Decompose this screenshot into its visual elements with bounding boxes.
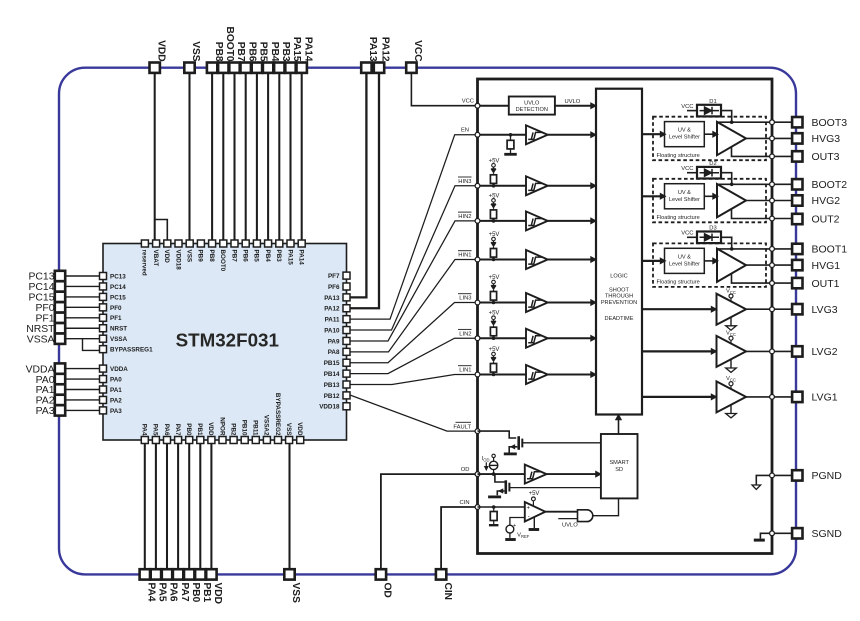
terminal OUT1 (right) [792,278,802,288]
MCU left pin VSSA [100,335,107,342]
MCU top pin VSS [186,240,193,247]
wire PA14 (top) to MCU pin PA14 [301,73,303,240]
svg-text:EN: EN [461,128,469,134]
MCU bottom pin BYPASSREG2 [275,437,282,444]
svg-text:VCC: VCC [412,40,423,62]
terminal SGND (right) [792,528,802,538]
wire PB8 (top) to MCU pin PB8 [211,73,213,240]
wire HVG1 output [746,264,792,266]
CIN pull-down resistor [492,505,496,509]
svg-text:PF1: PF1 [35,314,54,325]
svg-text:NRST: NRST [110,326,127,333]
terminal HVG3 (right) [792,133,802,143]
terminal PGND (right) [792,470,802,480]
svg-text:VBAT: VBAT [152,250,159,267]
svg-text:PA14: PA14 [298,250,305,266]
svg-text:PA5: PA5 [152,424,159,436]
terminal BOOT1 (right) [792,244,802,254]
wire PA15 (top) to MCU pin PA15 [289,73,291,240]
svg-text:PB14: PB14 [324,371,340,378]
node OD on driver boundary [475,472,480,477]
wire BOOT1 output [717,248,792,250]
svg-text:PB4: PB4 [264,250,271,263]
node FAULT on driver boundary [475,429,480,434]
wire PA2 (left) to MCU pin PA2 [66,399,100,401]
svg-text:NPOR: NPOR [218,417,225,436]
MCU bottom pin NPOR [219,437,226,444]
svg-text:VDD18: VDD18 [174,250,181,271]
svg-text:THROUGH: THROUGH [605,294,633,300]
svg-text:PB10: PB10 [241,420,248,436]
svg-text:VDD: VDD [212,583,223,605]
MCU top pin PB8 [209,240,216,247]
svg-text:PB3: PB3 [275,250,282,263]
high-side gate buffer (stage 1) [717,249,746,282]
svg-text:UV &: UV & [678,190,691,196]
wire LVG1 output [746,396,792,398]
svg-text:PA5: PA5 [157,583,168,602]
wire LIN3 buffer to logic block [548,302,596,304]
MCU left pin PC15 [100,293,107,300]
wire LIN2 buffer to logic block [548,337,596,339]
MCU right pin VDD18 [343,403,350,410]
svg-text:SHOOT: SHOOT [609,288,629,294]
terminal PB7 (top) [229,63,239,73]
wire BOOT0 (top) to MCU pin BOOT0 [222,73,224,240]
MCU bottom pin PA5 [152,437,159,444]
wire OUT2 output [732,209,792,219]
svg-text:VSS: VSS [290,583,301,604]
wire PGND to boundary node [772,474,792,476]
svg-text:PA0: PA0 [110,376,122,383]
node LIN2 on driver boundary [478,337,527,339]
svg-text:PA8: PA8 [328,349,340,356]
MCU left pin VDDA [100,365,107,372]
wire OD buffer to SMART SD [547,473,601,475]
wire PB5 (top) to MCU pin PB5 [256,73,258,240]
svg-text:PF0: PF0 [110,305,122,312]
svg-text:UVLO: UVLO [524,101,540,107]
terminal PA3 (left) [55,405,65,415]
MCU right pin PA13 [343,294,350,301]
svg-text:PF6: PF6 [328,284,340,291]
wire MCU PA9 to driver HIN2 input [350,221,478,341]
MCU bottom pin VDD [297,437,304,444]
svg-text:HIN3: HIN3 [458,179,471,185]
svg-text:PC13: PC13 [29,272,55,283]
MCU left pin BYPASSREG1 [100,346,107,353]
wire PF0 (left) to MCU pin PF0 [66,306,100,308]
AND gate U3 [578,510,593,522]
MCU top pin PB6 [242,240,249,247]
terminal OD (bottom) [376,569,386,579]
svg-text:PA14: PA14 [302,37,313,62]
svg-text:BYPASSREG1: BYPASSREG1 [110,347,153,354]
schmitt trigger buffer (OD) [525,465,547,484]
wire MCU PB12 to driver FAULT input [350,395,478,431]
svg-text:LVG1: LVG1 [812,392,838,404]
terminal LVG3 (right) [792,304,802,314]
svg-text:PC15: PC15 [110,294,126,301]
svg-text:VSSA: VSSA [110,336,128,343]
terminal VDD (bottom) [206,569,216,579]
svg-text:PA1: PA1 [36,385,55,396]
wire PB3 (top) to MCU pin PB3 [278,73,280,240]
MCU U1 STM32F031 body [103,244,347,441]
high-side gate buffer (stage 2) [717,184,746,217]
node VCC on driver boundary [478,105,509,107]
svg-text:HVG3: HVG3 [812,133,841,145]
svg-text:VDD: VDD [163,250,170,264]
terminal PA13 (top) [361,63,371,73]
wire MCU PB13 to driver LIN1 input [350,375,478,385]
wire logic to UV & level shifter (stage 3) [642,133,665,135]
svg-text:VCC: VCC [681,104,693,110]
svg-text:PA10: PA10 [324,327,340,334]
MCU right pin PB15 [343,359,350,366]
svg-text:PA9: PA9 [328,338,340,345]
UV & Level Shifter block (stage 2) [665,184,705,209]
svg-text:VCC: VCC [681,166,693,172]
schmitt trigger buffer (HIN1) [526,250,548,269]
wire level shifter to gate buffer (stage 3) [704,133,717,135]
terminal VSS (bottom) [284,569,294,579]
terminal LVG2 (right) [792,346,802,356]
svg-text:PB12: PB12 [324,393,340,400]
terminal PB0 (bottom) [184,569,194,579]
terminal VDDA (left) [55,363,65,373]
MCU left pin PC13 [100,273,107,280]
wire SGND to boundary node [772,532,792,534]
svg-text:VSSA2: VSSA2 [263,415,270,436]
svg-text:VDDA: VDDA [110,366,128,373]
wire EN buffer to logic block [548,134,596,136]
ground (LVG2 buffer) [730,360,732,368]
svg-text:UV &: UV & [678,254,691,260]
svg-text:PB9: PB9 [197,250,204,263]
svg-text:PA13: PA13 [324,295,340,302]
MCU right pin PF6 [343,283,350,290]
svg-text:PB5: PB5 [258,42,269,62]
MCU right pin PA10 [343,327,350,334]
MCU top pin PB9 [197,240,204,247]
svg-text:IOD: IOD [482,456,490,463]
svg-text:HVG1: HVG1 [812,260,841,272]
terminal VCC (top) [406,63,416,73]
wire LVG2 output [746,350,792,352]
wire HVG3 output [746,137,792,139]
svg-text:NRST: NRST [26,324,55,335]
wire PA12 (top) to MCU pin PA12 [350,73,379,308]
node CIN on driver boundary [475,505,480,510]
svg-text:PA3: PA3 [110,408,122,415]
terminal PC14 (left) [55,281,65,291]
floating structure dashed box (stage 1) [653,243,766,287]
schmitt trigger buffer (LIN1) [526,365,548,384]
terminal PA6 (bottom) [162,569,172,579]
svg-text:PB4: PB4 [269,42,280,62]
svg-text:+5V: +5V [529,491,540,497]
svg-text:reserved: reserved [141,250,148,276]
wire AND gate to SMART SD [593,498,619,515]
svg-text:PA3: PA3 [36,406,55,417]
wire PB6 (top) to MCU pin PB6 [245,73,247,240]
svg-text:PA6: PA6 [168,583,179,602]
wire PC14 (left) to MCU pin PC14 [66,285,100,287]
svg-text:PGND: PGND [812,470,843,482]
svg-text:PB15: PB15 [324,360,340,367]
wire MCU pin VSS to VSS (bottom) [288,444,290,570]
svg-text:LVG2: LVG2 [812,346,838,358]
svg-text:FAULT: FAULT [453,424,471,430]
terminal PC13 (left) [55,271,65,281]
ground (LVG1 buffer) [730,405,732,413]
terminal BOOT3 (right) [792,117,802,127]
svg-text:VDD: VDD [207,422,214,436]
svg-text:LVG3: LVG3 [812,304,838,316]
svg-text:VSS: VSS [285,423,292,436]
MCU right pin PB14 [343,370,350,377]
svg-text:PB1: PB1 [201,583,212,603]
MCU right pin PB13 [343,381,350,388]
wire MCU pin PB0 to PB0 (bottom) [188,444,190,570]
ground (SGND) [760,533,772,538]
svg-text:Level Shifter: Level Shifter [669,135,700,141]
svg-text:PA15: PA15 [286,250,293,266]
MCU left pin NRST [100,325,107,332]
svg-text:DETECTION: DETECTION [516,107,548,113]
terminal HVG2 (right) [792,195,802,205]
wire PA0 (left) to MCU pin PA0 [66,378,100,380]
svg-text:VDD: VDD [296,422,303,436]
MCU bottom pin VSSA2 [263,437,270,444]
svg-text:+: + [526,506,530,512]
wire SMART SD to logic block [618,415,620,435]
MCU top pin PB3 [276,240,283,247]
svg-text:PA12: PA12 [324,306,340,313]
svg-text:OD: OD [461,467,470,473]
SMART SD block [601,434,638,498]
svg-text:Floating structure: Floating structure [657,153,700,159]
svg-text:PA2: PA2 [110,397,122,404]
svg-text:VSS: VSS [190,41,201,62]
wire NRST (left) to MCU pin NRST [66,327,100,329]
ground (PGND) [756,475,772,485]
terminal OUT3 (right) [792,151,802,161]
svg-text:LOGIC: LOGIC [610,273,627,279]
MCU left pin PC14 [100,283,107,290]
svg-text:BOOT3: BOOT3 [812,117,848,129]
wire BOOT3 output [717,121,792,123]
low-side gate buffer LVG3 [717,294,747,325]
gate driver block boundary [478,79,773,554]
terminal PF0 (left) [55,302,65,312]
terminal PB1 (bottom) [195,569,205,579]
svg-text:PA6: PA6 [163,424,170,436]
svg-text:Floating structure: Floating structure [657,280,700,286]
svg-text:PB7: PB7 [235,42,246,62]
MCU left pin PA1 [100,386,107,393]
svg-text:OD: OD [382,583,393,598]
floating structure dashed box (stage 2) [653,179,766,223]
MCU top pin VDD [164,240,171,247]
MCU bottom pin PB0 [186,437,193,444]
svg-text:PC14: PC14 [29,282,55,293]
wire UVLO detection to logic block with UVLO net label [555,105,596,107]
wire VSS (top) to VSS pin [188,73,190,240]
node LIN1 on driver boundary [478,374,527,376]
svg-text:OUT2: OUT2 [812,214,840,226]
schmitt trigger buffer (HIN3) [526,176,548,195]
svg-text:PB2: PB2 [229,423,236,436]
svg-text:PB0: PB0 [190,583,201,603]
terminal PA14 (top) [297,63,307,73]
svg-text:PB6: PB6 [246,42,257,62]
svg-text:PC13: PC13 [110,273,126,280]
MCU top pin PA14 [298,240,305,247]
node EN on driver boundary [478,134,527,136]
MCU top pin PA15 [287,240,294,247]
MCU left pin PA2 [100,396,107,403]
MCU right pin PA8 [343,348,350,355]
svg-text:PA4: PA4 [146,583,157,602]
wire PA3 (left) to MCU pin PA3 [66,409,100,411]
MCU bottom pin PB11 [252,437,259,444]
svg-text:PB3: PB3 [280,42,291,62]
svg-text:-: - [528,514,530,520]
svg-text:VDD: VDD [155,40,166,62]
MCU right pin PA11 [343,316,350,323]
wire CIN (bottom) to driver CIN input [441,507,477,569]
schmitt trigger buffer (LIN2) [526,329,548,348]
svg-text:PA4: PA4 [141,424,148,436]
terminal BOOT0 (top) [218,63,228,73]
svg-text:VCC: VCC [462,99,474,105]
svg-text:PB11: PB11 [252,420,259,436]
svg-text:Floating structure: Floating structure [657,215,700,221]
wire MCU pin VDD to VDD (bottom) [210,444,212,570]
terminal CIN (bottom) [436,569,446,579]
wire PC15 (left) to MCU pin PC15 [66,296,100,298]
svg-text:PF1: PF1 [110,315,122,322]
terminal PB8 (top) [207,63,217,73]
wire MCU pin PA5 to PA5 (bottom) [155,444,157,570]
wire VSSA (left) to MCU pin VSSA [66,338,100,340]
wire LVG3 output [746,308,792,310]
wire BOOT2 output [717,183,792,185]
terminal PC15 (left) [55,292,65,302]
fault pull-down MOSFET Q1 [517,436,520,450]
wire MCU pin PA6 to PA6 (bottom) [166,444,168,570]
MCU left pin PA3 [100,407,107,414]
terminal BOOT2 (right) [792,179,802,189]
MCU left pin PF0 [100,304,107,311]
MCU bottom pin PB2 [230,437,237,444]
EN pull-down resistor [509,133,513,137]
LOGIC / shoot-through prevention / deadtime block [596,89,642,415]
MCU top pin reserved [141,240,148,247]
UVLO DETECTION block [509,97,555,115]
wire HVG2 output [746,200,792,202]
outer package boundary (blue rounded rectangle) [59,68,796,575]
terminal PA2 (left) [55,395,65,405]
wire HIN1 buffer to logic block [548,259,596,261]
wire OUT3 output [732,147,792,157]
MCU bottom pin VDD [208,437,215,444]
terminal HVG1 (right) [792,260,802,270]
terminal PA7 (bottom) [173,569,183,579]
wire PC13 (left) to MCU pin PC13 [66,275,100,277]
wire MCU pin PA7 to PA7 (bottom) [177,444,179,570]
MCU top pin PB7 [231,240,238,247]
wire comparator output to AND gate [545,511,578,513]
svg-text:PA11: PA11 [325,317,340,324]
schmitt trigger buffer (EN) [526,125,548,144]
high-side gate buffer (stage 3) [717,122,746,155]
svg-text:SD: SD [615,467,623,473]
OD pull-down MOSFET Q2 [495,474,505,482]
UV & Level Shifter block (stage 1) [665,248,705,273]
terminal PB6 (top) [241,63,251,73]
svg-text:DEADTIME: DEADTIME [605,316,634,322]
svg-text:LIN1: LIN1 [459,368,471,374]
MCU bottom pin PB10 [241,437,248,444]
svg-text:VSS: VSS [186,250,193,263]
node HIN3 on driver boundary [478,185,527,187]
MCU top pin PB5 [253,240,260,247]
svg-text:PB7: PB7 [230,250,237,263]
low-side gate buffer LVG1 [717,381,747,412]
ground (CIN resistor) [489,524,499,526]
wire LIN1 buffer to logic block [548,374,596,376]
svg-text:OUT1: OUT1 [812,278,840,290]
svg-text:LIN3: LIN3 [459,296,471,302]
wire VDD (top) to VBAT pin with branch to VDD pin [154,73,156,240]
terminal PA1 (left) [55,384,65,394]
wire level shifter to gate buffer (stage 2) [704,195,717,197]
svg-text:PF0: PF0 [35,303,54,314]
svg-text:SGND: SGND [812,528,843,540]
schmitt trigger buffer (HIN2) [526,211,548,230]
svg-text:VDDA: VDDA [26,364,55,375]
svg-text:PB13: PB13 [324,382,340,389]
terminal NRST (left) [55,323,65,333]
MCU top pin BOOT0 [220,240,227,247]
node HIN1 on driver boundary [478,259,527,261]
wire OD (bottom) to driver OD input [381,474,478,569]
svg-text:UV &: UV & [678,128,691,134]
svg-text:UVLO: UVLO [565,99,581,105]
terminal PB4 (top) [263,63,273,73]
svg-text:PREVENTION: PREVENTION [601,300,637,306]
svg-text:LIN2: LIN2 [459,331,471,337]
terminal VSSA (left) [55,334,65,344]
schmitt trigger buffer (LIN3) [526,293,548,312]
terminal PB3 (top) [274,63,284,73]
svg-text:BYPASSREG2: BYPASSREG2 [274,393,281,436]
ground (fault MOSFET source) [504,452,517,455]
wire logic to LVG2 buffer [642,350,717,352]
wire MCU PB14 to driver LIN2 input [350,338,478,373]
svg-text:PB5: PB5 [253,250,260,263]
wire MCU PA10 to driver HIN3 input [350,186,478,330]
svg-text:CIN: CIN [442,583,453,601]
svg-text:PB8: PB8 [213,42,224,62]
terminal VDD (top) [150,63,160,73]
svg-text:BOOT0: BOOT0 [219,250,226,272]
svg-text:PB0: PB0 [185,423,192,436]
svg-text:SMART: SMART [609,460,629,466]
